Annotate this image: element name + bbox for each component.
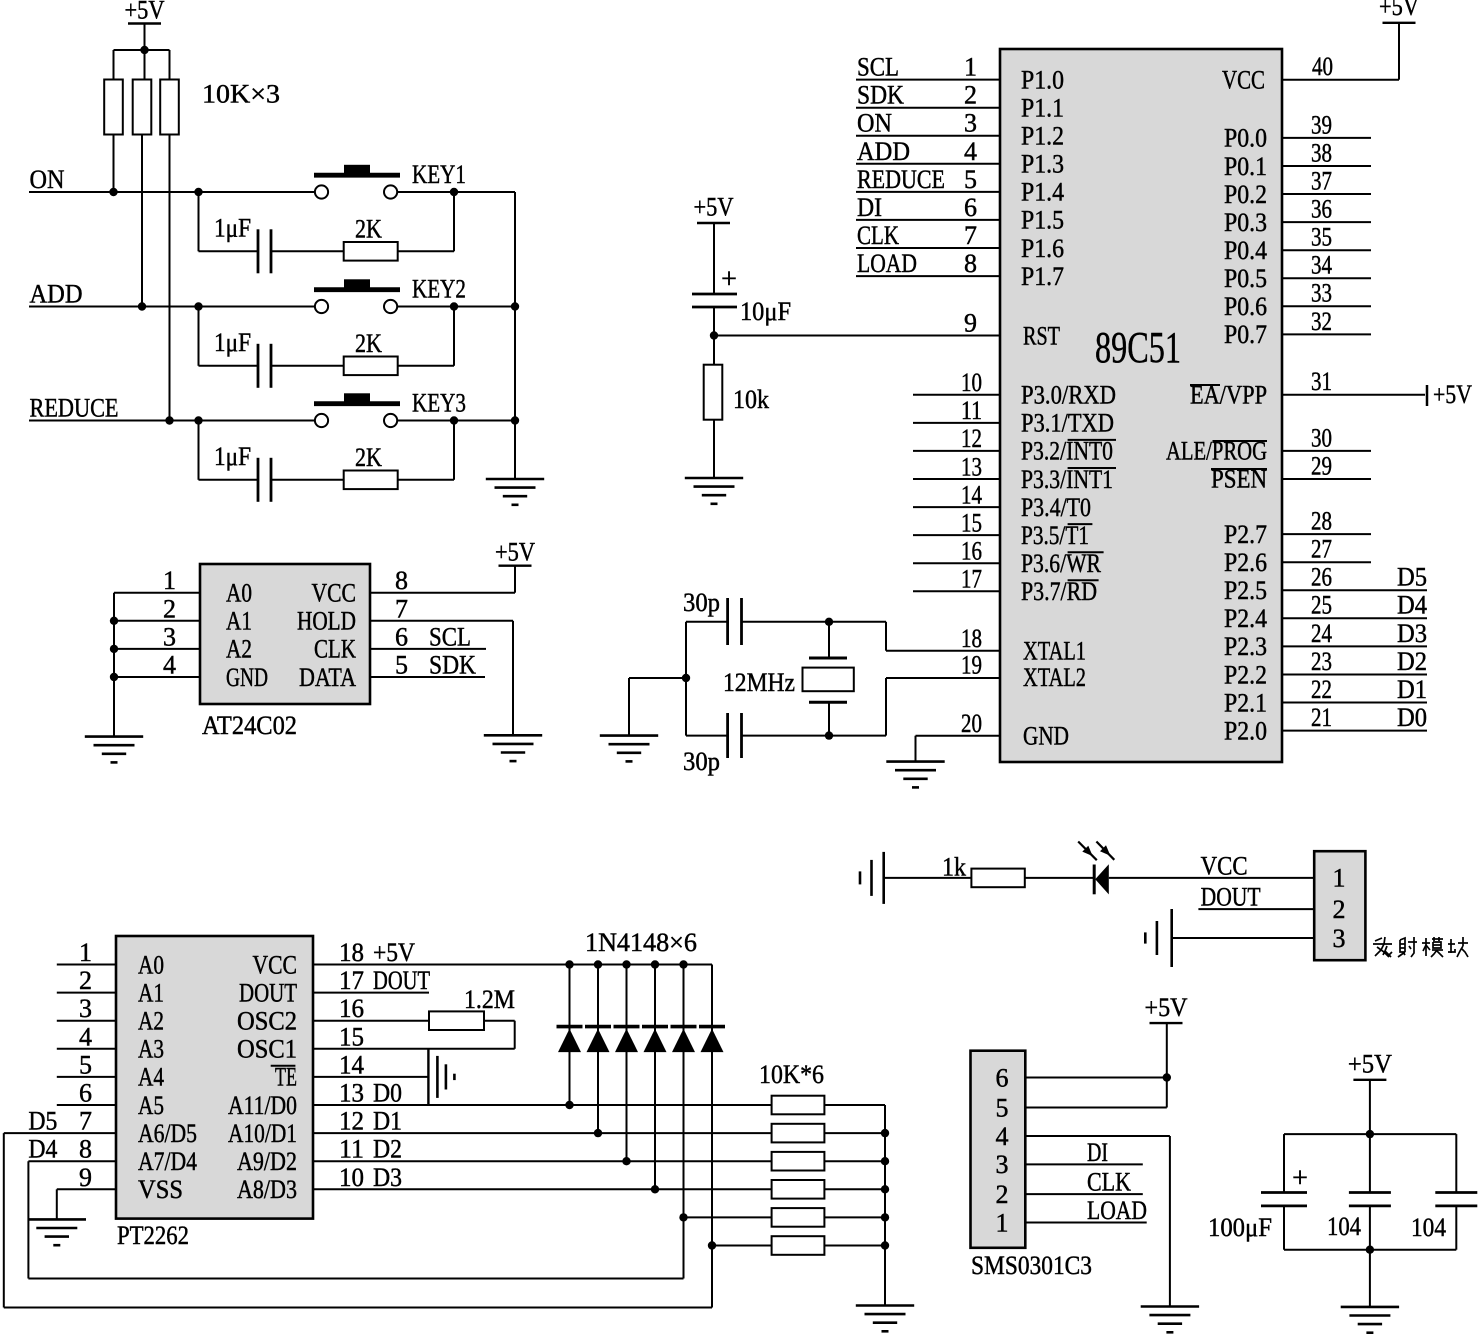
resistor R6 1k: [971, 869, 1024, 888]
net label +5V (U3 pin18): [373, 938, 415, 967]
U2 pin 4 wire (GND): [114, 676, 200, 678]
U1 pin 16 wire (P3.6/WR): [913, 562, 1000, 564]
ground (U4 pin4): [1141, 1307, 1199, 1333]
svg-text:P0.0: P0.0: [1224, 124, 1267, 153]
svg-text:10k: 10k: [733, 385, 769, 414]
U4 pin number 2: [996, 1180, 1009, 1209]
svg-text:A2: A2: [226, 635, 252, 664]
net label D3 (U3 pin10): [373, 1163, 402, 1192]
svg-text:12: 12: [961, 424, 982, 453]
wire module pin2 stub (DOUT): [1198, 908, 1314, 910]
U2 pin label A1: [226, 607, 252, 636]
U1 pin number 34: [1311, 251, 1332, 280]
U1 pin label P3.6/WR: [1021, 549, 1104, 578]
net label LOAD (U1 pin 8): [857, 249, 917, 278]
svg-text:37: 37: [1311, 166, 1332, 195]
node junction R1/ON: [109, 188, 117, 196]
svg-text:DOUT: DOUT: [1201, 883, 1261, 912]
net label D5 (U1 pin 26): [1397, 563, 1427, 592]
svg-text:11: 11: [961, 396, 982, 425]
LED D7 indicator: [1078, 842, 1114, 895]
U1 pin number 14: [961, 480, 982, 509]
svg-text:P2.0: P2.0: [1224, 716, 1267, 745]
svg-text:CLK: CLK: [1087, 1168, 1131, 1197]
svg-text:2K: 2K: [355, 215, 382, 244]
svg-text:5: 5: [395, 651, 408, 680]
wire C7 bottom lead: [1455, 1206, 1457, 1250]
wire key out to trunk (REDUCE): [397, 420, 515, 422]
resistor 10K #2 of 10K*6: [772, 1124, 825, 1143]
svg-text:40: 40: [1312, 52, 1333, 81]
module J1 transmit body: [1314, 851, 1365, 960]
svg-text:P1.1: P1.1: [1021, 94, 1064, 123]
svg-text:ADD: ADD: [857, 137, 910, 166]
svg-text:HOLD: HOLD: [297, 607, 356, 636]
svg-text:2: 2: [996, 1180, 1009, 1209]
svg-text:8: 8: [79, 1135, 92, 1164]
node junction trunk/5: [881, 1213, 889, 1221]
U3 pin number 8: [79, 1135, 92, 1164]
svg-text:1k: 1k: [942, 853, 966, 882]
net label D3 (U1 pin 24): [1397, 619, 1427, 648]
label 100&#956;F: [1208, 1213, 1272, 1242]
U1 pin label P0.5: [1224, 264, 1267, 293]
U3 pin label A0: [138, 950, 164, 979]
svg-text:31: 31: [1311, 367, 1332, 396]
svg-text:14: 14: [339, 1050, 364, 1079]
svg-text:1.2M: 1.2M: [464, 985, 515, 1014]
U1 pin number 1: [964, 53, 977, 82]
U1 pin label P2.3: [1224, 632, 1267, 661]
ground (module pin3, rotated): [1145, 909, 1171, 967]
net label D0 (U1 pin 21): [1397, 703, 1427, 732]
node junction D0/diode1: [565, 1101, 573, 1109]
svg-text:D4: D4: [1397, 591, 1427, 620]
svg-text:P1.3: P1.3: [1021, 150, 1064, 179]
svg-text:3: 3: [964, 109, 977, 138]
svg-text:A0: A0: [138, 950, 164, 979]
svg-text:+5V: +5V: [1145, 993, 1188, 1022]
switch KEY2: [314, 279, 400, 313]
wire 2K up to key out (ADD): [398, 307, 454, 366]
svg-text:38: 38: [1311, 138, 1332, 167]
svg-text:AT24C02: AT24C02: [202, 711, 297, 740]
diode 1N4148 #3: [614, 1027, 640, 1053]
U1 pin label P2.1: [1224, 688, 1267, 717]
svg-text:6: 6: [964, 193, 977, 222]
label 1&#956;F (ON): [214, 213, 251, 242]
svg-text:A1: A1: [226, 607, 252, 636]
U1 pin label P1.4: [1021, 178, 1064, 207]
svg-text:+5V: +5V: [373, 938, 415, 967]
wire D4 line to R5th: [684, 1216, 772, 1218]
wire LED to module pin1 (VCC): [1109, 877, 1314, 879]
svg-text:24: 24: [1311, 619, 1332, 648]
wire 10K #6 to trunk: [824, 1245, 885, 1247]
svg-text:DATA: DATA: [299, 663, 356, 692]
wire XTAL1 net top: [686, 622, 1000, 651]
U1 pin 4 wire / net ADD: [856, 163, 1000, 165]
svg-text:23: 23: [1311, 647, 1332, 676]
svg-text:104: 104: [1327, 1212, 1361, 1241]
wire R2 to ADD row: [141, 135, 143, 307]
svg-text:10: 10: [339, 1163, 364, 1192]
U1 pin number 2: [964, 81, 977, 110]
svg-text:10K×3: 10K×3: [202, 80, 280, 109]
U1 pin 15 wire (P3.5/T1): [913, 534, 1000, 536]
svg-text:D1: D1: [1397, 675, 1427, 704]
U1 pin label P1.6: [1021, 234, 1064, 263]
svg-text:CLK: CLK: [314, 635, 356, 664]
svg-text:1: 1: [996, 1208, 1009, 1237]
U1 pin label P2.4: [1224, 604, 1267, 633]
U1 pin label P0.0: [1224, 124, 1267, 153]
U4 pin number 6: [996, 1063, 1009, 1092]
net label D1 (U1 pin 22): [1397, 675, 1427, 704]
svg-text:4: 4: [163, 651, 176, 680]
diode 1N4148 #2: [585, 1027, 611, 1053]
U1 pin number 16: [961, 537, 982, 566]
svg-text:1: 1: [1333, 864, 1346, 893]
U1 pin number 38: [1311, 138, 1332, 167]
wire XTAL2 net bottom: [686, 678, 1000, 736]
svg-text:100μF: 100μF: [1208, 1213, 1272, 1242]
U1 pin label P3.0/RXD: [1021, 381, 1116, 410]
ground (crystal): [600, 736, 658, 762]
wire C4 to RST node: [713, 307, 715, 336]
node junction R3/REDUCE: [165, 416, 173, 424]
U4 pin 6 wire: [1025, 1077, 1167, 1079]
U1 pin number 22: [1311, 675, 1332, 704]
svg-text:29: 29: [1311, 451, 1332, 480]
U3 pin number 15: [339, 1022, 364, 1051]
wire C6 top lead: [1369, 1134, 1371, 1192]
U1 pin label PSEN: [1211, 465, 1267, 494]
svg-text:6: 6: [996, 1063, 1009, 1092]
U1 pin number 3: [964, 109, 977, 138]
node SCL: [429, 622, 471, 651]
U1 pin number 25: [1311, 591, 1332, 620]
svg-text:D2: D2: [373, 1135, 402, 1164]
label 1k: [942, 853, 966, 882]
svg-text:A11/D0: A11/D0: [228, 1091, 297, 1120]
svg-text:ON: ON: [857, 109, 892, 138]
svg-text:DI: DI: [1087, 1138, 1108, 1167]
label SMS0301C3: [971, 1251, 1092, 1280]
svg-text:17: 17: [339, 966, 364, 995]
node junction D3/diode4: [651, 1185, 659, 1193]
U2 pin label VCC: [312, 579, 357, 608]
svg-text:OSC1: OSC1: [237, 1035, 297, 1064]
svg-text:P2.7: P2.7: [1224, 520, 1267, 549]
wire D5 bottom bus: [4, 1246, 712, 1308]
U1 pin 3 wire / net ON: [856, 135, 1000, 137]
label PT2262: [117, 1221, 189, 1250]
U2 pin number 8: [395, 566, 408, 595]
svg-text:12MHz: 12MHz: [723, 668, 795, 697]
svg-text:21: 21: [1311, 703, 1332, 732]
U1 pin 28 wire (P2.7): [1282, 533, 1371, 535]
U2 pin label DATA: [299, 663, 356, 692]
U1 pin label P2.7: [1224, 520, 1267, 549]
svg-text:OSC2: OSC2: [237, 1007, 297, 1036]
U1 pin label P2.5: [1224, 576, 1267, 605]
U3 pin label A2: [138, 1007, 164, 1036]
wire cap to 2K (ON): [271, 250, 344, 252]
U3 pin number 14: [339, 1050, 364, 1079]
node junction crystal ground stub: [682, 674, 690, 682]
svg-text:P0.1: P0.1: [1224, 152, 1267, 181]
svg-text:14: 14: [961, 480, 982, 509]
node ON: [30, 165, 65, 194]
U3 pin 5 wire (A4): [57, 1076, 116, 1078]
U1 pin 39 wire (P0.0): [1282, 137, 1371, 139]
label KEY2: [412, 275, 466, 304]
U2 pin number 2: [163, 594, 176, 623]
U3 pin number 4: [79, 1022, 92, 1051]
wire REDUCE row: [29, 420, 315, 422]
wire C5 bottom lead: [1283, 1206, 1285, 1250]
U1 pin 2 wire / net SDK: [856, 107, 1000, 109]
U1 pin label VCC: [1222, 66, 1265, 95]
U1 pin number 15: [961, 508, 982, 537]
label 2K (ADD): [355, 329, 382, 358]
wire U3 pin16 to R5: [313, 1020, 429, 1022]
svg-text:REDUCE: REDUCE: [30, 394, 119, 423]
svg-text:DOUT: DOUT: [239, 978, 297, 1007]
U3 pin label A11/D0: [228, 1091, 297, 1120]
U3 pin number 2: [79, 966, 92, 995]
wire D2 line (U3 pin11 to R network): [313, 1160, 772, 1162]
svg-text:P3.2/INT0: P3.2/INT0: [1021, 437, 1113, 466]
U3 pin number 18: [339, 938, 364, 967]
svg-text:VCC: VCC: [253, 950, 298, 979]
capacitor C2 30p: [728, 713, 742, 758]
U1 pin label P1.1: [1021, 94, 1064, 123]
node junction trunk/2: [881, 1129, 889, 1137]
svg-text:+5V: +5V: [125, 0, 165, 25]
svg-text:8: 8: [964, 249, 977, 278]
U1 pin number 32: [1311, 307, 1332, 336]
U1 pin number 7: [964, 221, 977, 250]
U3 pin label A5: [138, 1091, 164, 1120]
resistor 10K #3 of 10K*6: [772, 1152, 825, 1171]
svg-text:SCL: SCL: [429, 622, 471, 651]
svg-text:12: 12: [339, 1107, 364, 1136]
U2 pin 1 wire (A0): [114, 592, 200, 594]
svg-text:P0.5: P0.5: [1224, 264, 1267, 293]
U3 pin label VSS: [138, 1175, 183, 1204]
U4 pin 1 wire: [1025, 1222, 1146, 1224]
U1 pin number 5: [964, 165, 977, 194]
label 89C51: [1095, 323, 1181, 372]
node junction +5V bus / D1: [565, 960, 573, 968]
svg-text:18: 18: [961, 624, 982, 653]
svg-text:P0.2: P0.2: [1224, 180, 1267, 209]
resistor 2K (REDUCE): [344, 471, 398, 490]
svg-text:P0.7: P0.7: [1224, 320, 1267, 349]
node junction XTAL2/crystal: [825, 731, 833, 739]
net label D5 (U3 pin7): [28, 1107, 57, 1136]
wire U3 pin17 DOUT stub: [313, 992, 429, 994]
U1 pin 12 wire (P3.2/INT0): [913, 450, 1000, 452]
U2 pin number 7: [395, 594, 408, 623]
U3 pin 2 wire (A1): [57, 992, 116, 994]
U1 pin 30 wire (ALE/PROG): [1282, 450, 1371, 452]
svg-text:P3.4/T0: P3.4/T0: [1021, 493, 1091, 522]
U1 pin label XTAL2: [1023, 663, 1086, 692]
svg-text:16: 16: [339, 994, 364, 1023]
U1 pin 7 wire / net CLK: [856, 247, 1000, 249]
U3 pin number 3: [79, 994, 92, 1023]
svg-text:26: 26: [1311, 563, 1332, 592]
U1 pin 26 wire (P2.5): [1282, 589, 1427, 591]
wire C7 top lead: [1455, 1134, 1457, 1192]
wire RST to U1 pin9: [714, 335, 1000, 337]
wire ADD row: [29, 306, 315, 308]
U1 pin 13 wire (P3.3/INT1): [913, 478, 1000, 480]
svg-text:KEY2: KEY2: [412, 275, 466, 304]
svg-text:D5: D5: [28, 1107, 57, 1136]
svg-text:VSS: VSS: [138, 1175, 183, 1204]
power +5V (U1 VCC): [1379, 0, 1419, 23]
net label DI (U1 pin 6): [857, 193, 882, 222]
svg-text:+5V: +5V: [495, 538, 535, 567]
wire ON row: [29, 191, 315, 193]
label 2K (ON): [355, 215, 382, 244]
resistor 10K #6 of 10K*6: [772, 1236, 825, 1255]
wire diode column 2: [597, 965, 599, 1134]
svg-text:D3: D3: [1397, 619, 1427, 648]
U1 pin 37 wire (P0.2): [1282, 193, 1371, 195]
label 10K×3: [202, 80, 280, 109]
U2 pin number 1: [163, 566, 176, 595]
net label SDK (U1 pin 2): [857, 81, 904, 110]
label 1.2M: [464, 985, 515, 1014]
svg-text:REDUCE: REDUCE: [857, 165, 945, 194]
net label REDUCE (U1 pin 5): [857, 165, 945, 194]
wire 10K trunk to ground: [884, 1105, 886, 1306]
svg-text:A8/D3: A8/D3: [237, 1175, 297, 1204]
label 10&#956;F: [740, 297, 791, 326]
diode 1N4148 #6: [699, 1027, 725, 1053]
svg-text:SDK: SDK: [429, 651, 476, 680]
U1 pin 19 number: [961, 651, 982, 680]
U1 pin label P0.6: [1224, 292, 1267, 321]
svg-text:3: 3: [163, 622, 176, 651]
U3 pin 4 wire (A3): [57, 1048, 116, 1050]
svg-text:10μF: 10μF: [740, 297, 791, 326]
U3 pin label A7/D4: [138, 1147, 197, 1176]
svg-text:10K*6: 10K*6: [759, 1060, 824, 1089]
ground (U2 HOLD): [484, 735, 542, 761]
U1 pin label ALE/PROG: [1166, 437, 1267, 466]
wire C5 top lead: [1283, 1134, 1285, 1192]
svg-text:5: 5: [996, 1093, 1009, 1122]
svg-text:P0.3: P0.3: [1224, 208, 1267, 237]
U1 pin label P0.2: [1224, 180, 1267, 209]
capacitor C4 10&#956;F: [692, 294, 737, 307]
U4 pin 2 wire: [1025, 1193, 1143, 1195]
svg-text:4: 4: [79, 1022, 92, 1051]
node ADD: [30, 280, 83, 309]
U3 pin 1 wire (A0): [57, 964, 116, 966]
U1 pin label P3.1/TXD: [1021, 409, 1114, 438]
label 发射模块 (transmit module): [1373, 937, 1468, 957]
U4 pin number 4: [996, 1122, 1009, 1151]
svg-text:XTAL2: XTAL2: [1023, 663, 1086, 692]
wire bottom rail to ground: [1369, 1250, 1371, 1307]
U1 pin label P3.4/T0: [1021, 493, 1091, 522]
diode 1N4148 #1: [557, 1027, 583, 1053]
capacitor C1 30p: [728, 598, 742, 645]
wire U2 VCC: [370, 566, 515, 593]
U1 pin label P3.7/RD: [1021, 577, 1099, 606]
U2 pin label A0: [226, 579, 252, 608]
U4 pin 4 wire: [1025, 1135, 1170, 1137]
svg-text:LOAD: LOAD: [1087, 1196, 1147, 1225]
node junction XTAL1/crystal: [825, 618, 833, 626]
U3 pin label A1: [138, 978, 164, 1007]
svg-text:104: 104: [1411, 1213, 1446, 1242]
U1 pin label P1.0: [1021, 65, 1064, 94]
node junction key out (ADD): [450, 302, 458, 310]
wire 10K #2 to trunk: [824, 1132, 885, 1134]
svg-text:ON: ON: [30, 165, 65, 194]
node junction D4/diode5: [679, 1213, 687, 1221]
node junction RST: [710, 331, 718, 339]
wire crystal left bus: [685, 622, 687, 736]
wire D1 line (U3 pin12 to R network): [313, 1132, 772, 1134]
net label DOUT (module pin2): [1201, 883, 1261, 912]
U1 pin label P0.1: [1224, 152, 1267, 181]
node junction trunk/6: [881, 1241, 889, 1249]
wire U3 pin14 TE to ground: [313, 1076, 428, 1078]
node SDK: [429, 651, 476, 680]
svg-text:SDK: SDK: [857, 81, 904, 110]
U3 pin label A4: [138, 1063, 164, 1092]
capacitor C5 100&#956;F polarity +: [1292, 1163, 1308, 1194]
U3 pin 6 wire (A5): [57, 1104, 116, 1106]
node junction trunk/4: [881, 1185, 889, 1193]
svg-text:P3.5/T1: P3.5/T1: [1021, 521, 1089, 550]
U1 pin number 24: [1311, 619, 1332, 648]
capacitor C5 100&#956;F: [1261, 1193, 1307, 1206]
label 12MHz: [723, 668, 795, 697]
svg-text:VCC: VCC: [1222, 66, 1265, 95]
U1 pin 27 wire (P2.6): [1282, 561, 1371, 563]
U1 pin 24 wire (P2.3): [1282, 645, 1427, 647]
node junction U2 pin2: [110, 617, 118, 625]
U1 pin number 11: [961, 396, 982, 425]
U1 pin number 17: [961, 565, 982, 594]
wire D4 bottom bus: [28, 1217, 683, 1278]
wire 10K #5 to trunk: [824, 1216, 885, 1218]
svg-text:1N4148×6: 1N4148×6: [585, 928, 697, 957]
power +5V (SMS): [1145, 993, 1188, 1023]
U1 pin 5 wire / net REDUCE: [856, 191, 1000, 193]
label 104 (C7): [1411, 1213, 1446, 1242]
wire crystal top lead: [828, 622, 830, 658]
U1 pin number 40: [1312, 52, 1333, 81]
svg-text:2: 2: [79, 966, 92, 995]
label KEY3: [412, 389, 466, 418]
svg-text:19: 19: [961, 651, 982, 680]
U3 pin number 10: [339, 1163, 364, 1192]
U3 pin number 1: [79, 938, 92, 967]
U1 pin number 29: [1311, 451, 1332, 480]
capacitor C4 10uF polarity +: [721, 264, 737, 295]
